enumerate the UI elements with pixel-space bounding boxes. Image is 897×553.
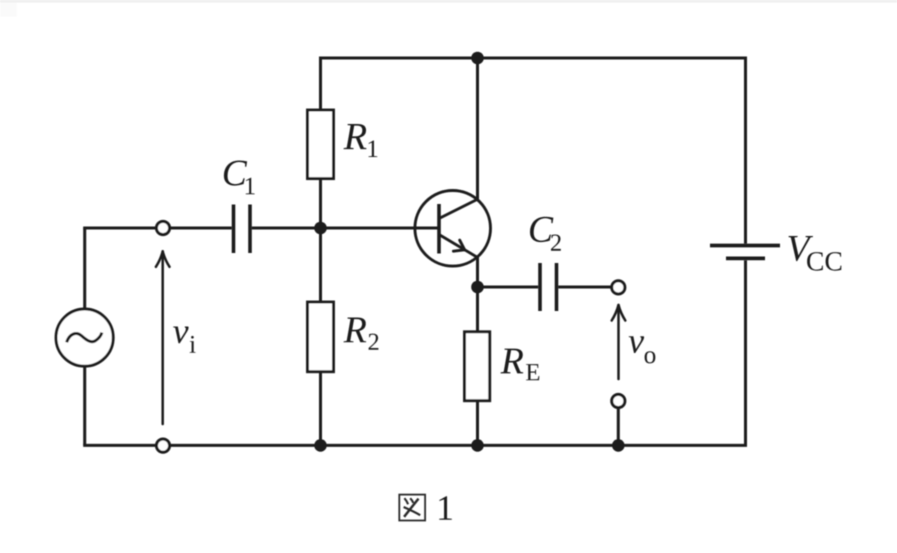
wire input top left (to input terminal) [83,227,156,230]
transistor Q1 base bar [437,204,441,254]
input terminal bottom [156,439,169,452]
node dot bottom RE [471,439,484,452]
arrow vo [612,305,626,379]
wire right rail lower (battery to bottom) [744,260,747,445]
transistor Q1 emitter line [439,235,479,259]
wire RE to bottom rail [476,401,479,446]
wire input terminal to C1 [171,227,232,230]
label VCC [788,236,813,261]
wire emitter node to C2 [478,286,539,289]
wire R1 to base node [319,179,322,228]
wire top rail [319,57,747,60]
wire C2 to output terminal [558,286,610,289]
transistor Q1 circle [415,191,491,267]
wire R2 to bottom rail [319,372,322,446]
wire R1 branch top [319,58,322,110]
wire left branch lower (AC source to bottom rail) [83,366,86,445]
output terminal top [612,281,625,294]
input terminal top [156,221,169,234]
output terminal lower [612,394,625,407]
wire collector vertical [476,58,479,200]
label R1 [344,124,367,149]
node dot top rail collector junction [471,52,484,65]
node dot bottom R2 [314,439,327,452]
capacitor C2 [540,263,557,311]
battery VCC long plate [710,244,780,248]
caption figure number 1 [439,496,451,519]
capacitor C1 [234,205,251,254]
transistor Q1 collector line [439,199,479,219]
wire right rail upper (to battery) [744,58,747,244]
resistor RE [465,332,490,401]
arrow vi [156,251,170,424]
node dot bottom output [612,439,625,452]
label vi [173,327,188,344]
AC source sine symbol [67,333,102,343]
wire bottom rail [83,444,747,447]
wire output lower terminal stub [617,409,620,446]
resistor R2 [308,302,334,372]
label vo [629,336,644,353]
AC source V circle [56,309,113,366]
label C1 [224,160,247,185]
wire emitter vertical to RE and bottom rail [476,257,479,332]
label RE [500,349,523,374]
transistor Q1 emitter arrowhead [453,240,464,251]
label C2 [530,217,553,242]
node dot base [314,222,327,235]
battery VCC short plate [726,256,765,260]
resistor R1 [308,110,334,179]
caption figure glyph (zu) [399,495,425,521]
wire base node to R2 [319,228,322,302]
wire C1 to base (through base node) [252,227,439,230]
wire left branch upper (input top to AC source) [83,228,86,309]
label R2 [343,317,366,342]
node dot emitter [471,281,484,294]
